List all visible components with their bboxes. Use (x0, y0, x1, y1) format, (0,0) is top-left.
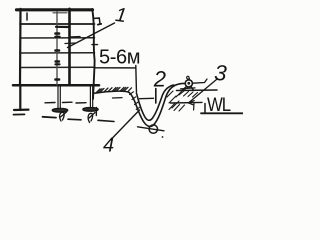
svg-text:2: 2 (153, 67, 166, 92)
svg-text:м: м (127, 47, 141, 69)
svg-text:5-6: 5-6 (99, 47, 127, 69)
svg-text:4: 4 (103, 135, 114, 157)
svg-text:WL: WL (207, 94, 231, 115)
